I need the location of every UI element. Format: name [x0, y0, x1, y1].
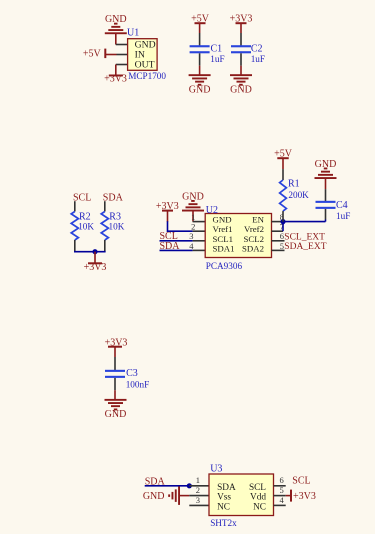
capacitor C3 [105, 370, 125, 378]
svg-text:3: 3 [196, 495, 200, 505]
svg-text:U2: U2 [206, 205, 218, 216]
svg-text:+3V3: +3V3 [84, 262, 107, 273]
wire R2 bottom pin [74, 240, 76, 252]
svg-text:+3V3: +3V3 [293, 491, 316, 502]
svg-text:SCL: SCL [249, 483, 266, 493]
svg-text:C2: C2 [251, 43, 263, 54]
wire U2 pin 2 Vref1 [193, 230, 206, 232]
wire U1 OUT pin 3 [116, 64, 128, 66]
svg-text:200K: 200K [288, 190, 309, 200]
svg-text:OUT: OUT [135, 60, 155, 71]
svg-text:NC: NC [217, 502, 230, 512]
power port +5V at C1 [191, 14, 210, 33]
ground symbol GND above U1 [105, 14, 127, 44]
svg-text:C4: C4 [336, 200, 348, 211]
wire SDA to U3 pin 1 [145, 485, 190, 487]
svg-text:EN: EN [252, 215, 264, 225]
wire EN node to C4 [283, 221, 326, 223]
svg-text:C1: C1 [211, 43, 223, 54]
power port +3V3 at U1 OUT [104, 65, 127, 85]
capacitor C4 [316, 201, 336, 209]
ground symbol GND above C4 [315, 159, 337, 189]
wire U2 pin 6 SCL2 [272, 240, 285, 242]
svg-text:1uF: 1uF [336, 211, 350, 221]
svg-text:MCP1700: MCP1700 [128, 71, 166, 81]
svg-text:GND: GND [105, 409, 127, 420]
power port +5V at R1 [274, 148, 293, 169]
svg-text:5: 5 [280, 485, 284, 495]
power port +3V3 at U2 Vref1 [156, 201, 179, 222]
svg-text:3: 3 [189, 231, 193, 241]
wire C2 top pin [240, 33, 242, 46]
wire C1 bottom pin [199, 53, 201, 65]
ground symbol GND above U2 pin 1 [182, 191, 204, 221]
svg-text:100nF: 100nF [126, 379, 150, 389]
ground symbol GND below C2 [230, 66, 252, 96]
wire U3 pin 6 SCL [274, 485, 286, 487]
svg-text:U3: U3 [210, 464, 222, 475]
level shifter U2 PCA9306 [205, 214, 271, 258]
ground symbol GND at U3 Vss [143, 486, 189, 505]
wire C2 bottom pin [240, 53, 242, 65]
svg-text:SCL: SCL [292, 475, 310, 486]
wire U3 pin 2 Vss [189, 495, 209, 497]
power port +3V3 at U3 Vdd [286, 490, 316, 502]
power port +3V3 at C3 [105, 337, 128, 357]
svg-text:SCL_EXT: SCL_EXT [284, 233, 325, 243]
svg-text:U1: U1 [127, 28, 139, 39]
svg-text:SCL: SCL [73, 192, 91, 203]
capacitor C1 [190, 45, 210, 53]
power port +3V3 at C2 [230, 14, 253, 33]
svg-text:SDA1: SDA1 [213, 243, 235, 253]
svg-text:Vdd: Vdd [250, 493, 266, 503]
junction at U3 SDA pin [187, 483, 192, 488]
svg-text:2: 2 [191, 222, 195, 232]
junction at U2 EN / R1 [280, 219, 285, 224]
svg-text:1uF: 1uF [210, 54, 224, 64]
wire R3 bottom pin [104, 240, 106, 252]
svg-text:Vss: Vss [217, 493, 231, 503]
wire U3 pin 4 NC [274, 504, 286, 506]
wire U2 pin 3 SCL1 [193, 240, 206, 242]
wire U3 pin 3 NC [189, 504, 209, 506]
wire joining R2 and R3 bottoms [74, 251, 106, 253]
resistor R3 [101, 212, 108, 241]
svg-text:SCL1: SCL1 [213, 234, 234, 244]
svg-text:NC: NC [253, 502, 266, 512]
wire U2 pin 1 GND [193, 221, 206, 223]
ground symbol GND below C1 [189, 66, 211, 96]
svg-text:10K: 10K [109, 221, 125, 231]
svg-text:GND: GND [189, 85, 211, 96]
junction at R2/R3 +3V3 node [92, 249, 97, 254]
svg-text:Vref2: Vref2 [244, 224, 264, 234]
wire U2 pin 5 SDA2 [272, 249, 285, 251]
svg-text:+5V: +5V [83, 49, 102, 60]
resistor R2 [71, 212, 78, 241]
svg-text:1: 1 [191, 212, 195, 222]
power port +5V at U1 IN [83, 49, 117, 60]
svg-text:1: 1 [196, 475, 200, 485]
svg-text:GND: GND [182, 191, 204, 202]
wire R3 top pin [104, 201, 106, 211]
wire C4 top pin [325, 189, 327, 201]
wire U3 pin 1 SDA [189, 485, 209, 487]
svg-text:2: 2 [196, 485, 200, 495]
svg-text:1uF: 1uF [251, 54, 265, 64]
svg-text:SDA2: SDA2 [242, 243, 264, 253]
wire C1 top pin [199, 33, 201, 46]
wire U1 IN pin 2 [117, 54, 128, 56]
svg-text:GND: GND [105, 14, 127, 25]
wire U1 GND pin 1 [116, 44, 128, 46]
wire U3 pin 5 Vdd [274, 495, 286, 497]
svg-text:R1: R1 [288, 179, 300, 190]
svg-text:GND: GND [213, 215, 232, 225]
svg-text:C3: C3 [126, 368, 138, 379]
svg-text:Vref1: Vref1 [213, 224, 233, 234]
wire U2 pin 8 EN [272, 221, 284, 223]
voltage regulator U1 [128, 39, 158, 71]
svg-text:SHT2x: SHT2x [210, 518, 237, 528]
wire from +3V3 to U2 pin 2 [168, 221, 193, 231]
wire R1 bottom pin [282, 211, 284, 222]
ground symbol GND below C3 [105, 390, 127, 420]
wire U2 pin 4 SDA1 [193, 249, 206, 251]
svg-text:SCL2: SCL2 [243, 234, 264, 244]
wire C3 bottom pin [114, 378, 116, 390]
svg-text:GND: GND [315, 159, 337, 170]
wire SCL to U2 pin 3 [160, 240, 193, 242]
capacitor C2 [231, 45, 251, 53]
resistor R1 [280, 180, 287, 211]
wire U2 pin 7 Vref2 [272, 230, 284, 232]
wire R1 top pin [282, 169, 284, 180]
svg-text:GND: GND [143, 491, 165, 502]
svg-text:6: 6 [280, 475, 284, 485]
svg-text:PCA9306: PCA9306 [206, 261, 243, 271]
svg-text:+3V3: +3V3 [104, 74, 127, 85]
svg-text:10K: 10K [78, 221, 94, 231]
wire C4 bottom pin [325, 209, 327, 222]
svg-text:SDA: SDA [103, 192, 124, 203]
power port +3V3 below R2/R3 [84, 252, 107, 274]
wire EN node down to Vref2 [282, 222, 284, 232]
svg-text:SDA: SDA [217, 483, 236, 493]
humidity sensor U3 SHT2x [209, 474, 274, 516]
wire C3 top pin [114, 357, 116, 370]
svg-text:SDA_EXT: SDA_EXT [284, 242, 326, 252]
wire R2 top pin [74, 201, 76, 211]
svg-text:GND: GND [230, 85, 252, 96]
wire SDA to U2 pin 4 [160, 249, 193, 251]
